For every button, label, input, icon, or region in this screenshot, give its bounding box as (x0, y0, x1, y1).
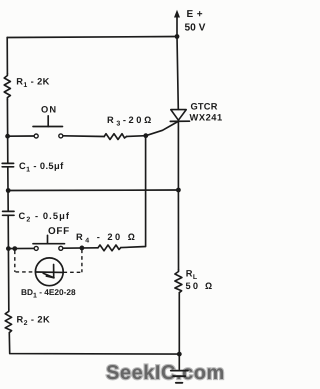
svg-text:GTCR: GTCR (191, 102, 218, 112)
svg-text:50 Ω: 50 Ω (186, 281, 215, 291)
svg-text:WX241: WX241 (190, 113, 223, 123)
svg-text:OFF: OFF (48, 226, 70, 237)
svg-text:50 V: 50 V (185, 23, 206, 34)
svg-text:ON: ON (41, 105, 57, 115)
svg-text:SeekIC.com: SeekIC.com (106, 362, 225, 384)
svg-text:E +: E + (187, 9, 204, 20)
